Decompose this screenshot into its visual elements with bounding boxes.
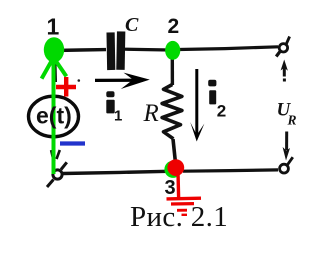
svg-text:1: 1 (114, 108, 122, 125)
svg-text:2: 2 (168, 15, 180, 38)
svg-text:3: 3 (165, 177, 176, 199)
svg-text:2: 2 (217, 102, 226, 121)
svg-text:R: R (143, 100, 159, 127)
svg-text:R: R (287, 113, 297, 128)
svg-text:1: 1 (47, 14, 60, 40)
svg-text:Рис. 2.1: Рис. 2.1 (130, 201, 228, 233)
svg-text:C: C (125, 14, 139, 36)
svg-text:e(t): e(t) (36, 103, 72, 129)
